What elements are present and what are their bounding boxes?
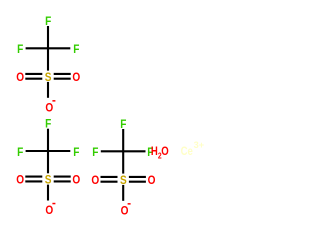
svg-text:F: F — [17, 43, 23, 56]
bond C-S (1) — [47, 48, 49, 70]
svg-text:H2O: H2O — [151, 145, 169, 161]
svg-text:O: O — [16, 71, 24, 84]
triflate 2 — [16, 118, 80, 217]
bond C-S (3) — [122, 151, 124, 173]
triflate 1 — [16, 15, 80, 114]
bond C-F top (3) — [122, 129, 124, 151]
svg-text:F: F — [92, 146, 98, 159]
triflate 3 — [91, 118, 155, 217]
svg-text:O: O — [121, 205, 129, 218]
svg-text:F: F — [120, 118, 126, 131]
svg-text:S: S — [120, 174, 127, 187]
bond S-O bottom (1) — [47, 82, 49, 98]
svg-text:O: O — [72, 71, 80, 84]
double bond S=O left (3) — [101, 177, 118, 182]
bond S-O bottom (3) — [122, 185, 124, 201]
svg-text:O: O — [91, 174, 99, 187]
svg-text:3+: 3+ — [194, 140, 204, 150]
bond C-F right (1) — [48, 47, 70, 49]
charge minus (3) — [128, 203, 131, 205]
double bond S=O left (2) — [25, 177, 42, 182]
svg-text:S: S — [45, 174, 52, 187]
bond C-F top (1) — [47, 26, 49, 48]
bond C-S (2) — [47, 151, 49, 173]
svg-text:F: F — [73, 146, 79, 159]
svg-text:O: O — [45, 102, 53, 115]
svg-text:O: O — [45, 204, 53, 217]
bond C-F left (1) — [26, 47, 48, 49]
svg-text:F: F — [45, 118, 51, 131]
double bond S=O left (1) — [25, 74, 42, 79]
svg-text:O: O — [148, 174, 156, 187]
svg-text:F: F — [17, 146, 23, 159]
double bond S=O right (3) — [129, 177, 146, 182]
bond C-F left (3) — [101, 150, 123, 152]
bond C-F right (3) — [123, 150, 145, 152]
charge minus (1) — [52, 100, 55, 102]
svg-text:O: O — [72, 174, 80, 187]
svg-text:F: F — [45, 15, 51, 28]
bond C-F left (2) — [26, 150, 48, 152]
svg-text:Ce: Ce — [181, 145, 193, 158]
double bond S=O right (1) — [54, 74, 71, 79]
bond C-F top (2) — [47, 129, 49, 151]
charge minus (2) — [52, 203, 55, 205]
svg-text:S: S — [45, 71, 52, 84]
svg-text:F: F — [73, 43, 79, 56]
bond S-O bottom (2) — [47, 185, 49, 201]
svg-text:O: O — [16, 174, 24, 187]
double bond S=O right (2) — [54, 177, 71, 182]
bond C-F right (2) — [48, 150, 70, 152]
